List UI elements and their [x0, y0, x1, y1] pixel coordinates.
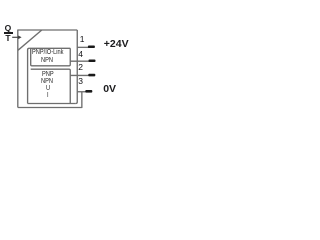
- output block U2 frame: [31, 69, 71, 103]
- net 0V: [103, 84, 116, 95]
- output block U1 top edge: [29, 47, 70, 49]
- sensor body left edge: [28, 48, 30, 103]
- wire end terminal 3: [85, 90, 92, 93]
- Q/T output arrow: [12, 36, 21, 40]
- wire end terminal 2: [88, 74, 95, 77]
- outer housing bottom edge: [18, 92, 82, 108]
- diagonal corner line: [18, 30, 42, 50]
- label Q (output): [5, 24, 12, 33]
- label NPN (U2): [41, 77, 53, 84]
- wire pin4: [70, 60, 89, 62]
- sensor body bottom edge: [28, 103, 76, 105]
- wire pin2: [70, 74, 89, 76]
- pin number 2: [78, 63, 83, 72]
- wire end terminal 1: [88, 45, 95, 48]
- label PNP (U2): [42, 70, 54, 77]
- pin number 3: [78, 77, 83, 86]
- wire pin3: [77, 91, 86, 93]
- sensor body right edge: [76, 30, 78, 104]
- label I: [47, 91, 49, 98]
- output block U1 left/bottom/right: [31, 48, 71, 66]
- pin number 4: [78, 50, 83, 59]
- wire end terminal 4: [89, 59, 96, 62]
- outer housing left and top edge: [18, 30, 77, 108]
- net +24V: [104, 39, 129, 50]
- fraction bar of Q/T: [4, 32, 13, 33]
- wire pin1: [77, 46, 89, 48]
- pin number 1: [80, 35, 85, 44]
- label T (teach): [5, 34, 10, 43]
- label PNP/IO-Link: [32, 49, 64, 56]
- label U: [46, 84, 50, 91]
- label NPN (U1): [41, 56, 53, 63]
